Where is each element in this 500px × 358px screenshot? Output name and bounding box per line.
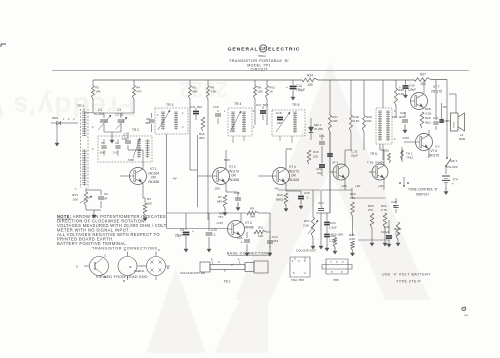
svg-text:R9: R9 [250,207,254,211]
svg-text:-9V: -9V [274,187,279,191]
svg-text:IE: IE [129,265,132,269]
svg-text:TR 6: TR 6 [370,152,377,156]
svg-text:·1: ·1 [236,196,239,200]
svg-text:TYPE 276-P: TYPE 276-P [396,280,421,284]
svg-text:7A52: 7A52 [406,156,413,160]
svg-text:6: 6 [341,270,343,274]
svg-text:22μF: 22μF [351,154,358,158]
svg-text:3: 3 [298,259,300,263]
svg-text:10K: 10K [332,119,337,123]
svg-text:R11: R11 [258,226,264,230]
svg-text:2N1175: 2N1175 [428,154,439,158]
svg-text:C11: C11 [190,105,196,109]
svg-text:18K: 18K [147,202,152,206]
svg-text:2N1636: 2N1636 [148,180,159,184]
svg-text:·032: ·032 [121,137,128,141]
svg-text:1: 1 [238,257,240,261]
svg-text:2: 2 [211,257,213,261]
svg-text:·0047: ·0047 [99,151,106,155]
svg-text:ELECTRIC: ELECTRIC [268,47,300,53]
svg-text:2N408: 2N408 [244,225,254,229]
svg-text:C24: C24 [330,221,336,225]
svg-text:TRANSISTOR PORTABLE ‘B’: TRANSISTOR PORTABLE ‘B’ [229,58,289,63]
svg-text:SWITCH: SWITCH [416,193,429,197]
svg-text:VT 4: VT 4 [289,165,296,169]
svg-text:39Ω: 39Ω [199,136,205,140]
svg-text:1: 1 [292,259,294,263]
svg-text:COLOUR DOT RD: COLOUR DOT RD [180,271,206,275]
svg-text:SHIELD: SHIELD [134,269,144,273]
svg-text:9V: 9V [443,105,447,109]
svg-text:680Ω: 680Ω [276,198,284,202]
svg-text:R25: R25 [384,149,390,153]
svg-text:S: S [76,264,78,268]
svg-text:2N1175: 2N1175 [431,89,442,93]
svg-text:13-12: 13-12 [115,113,123,117]
svg-text:C12: C12 [213,105,219,109]
svg-text:750μF: 750μF [296,88,305,92]
svg-text:56Ω: 56Ω [425,121,431,125]
svg-text:R7: R7 [218,195,222,199]
svg-text:6: 6 [394,138,396,141]
svg-text:680: 680 [217,200,222,204]
svg-text:502: 502 [263,103,268,107]
svg-text:VT 1: VT 1 [150,167,157,171]
svg-text:100: 100 [307,83,313,87]
svg-text:100: 100 [313,155,318,159]
svg-text:3: 3 [182,126,184,129]
svg-text:TR 3: TR 3 [166,103,173,107]
svg-text:100: 100 [420,82,426,86]
svg-text:2.7K: 2.7K [381,208,387,212]
svg-text:34K: 34K [250,215,255,219]
svg-text:R28: R28 [425,107,431,111]
svg-text:R3: R3 [147,197,151,201]
svg-text:VT 2: VT 2 [229,165,236,169]
svg-text:C10: C10 [211,228,217,232]
svg-text:VIEWED FROM LEAD END: VIEWED FROM LEAD END [96,275,148,279]
svg-text:7: 7 [330,260,332,264]
svg-text:R29: R29 [425,116,431,120]
svg-text:IN 295: IN 295 [314,127,323,131]
svg-text:270: 270 [368,208,373,212]
svg-text:1K: 1K [269,90,273,94]
svg-text:22K: 22K [366,119,371,123]
svg-text:+: + [192,230,194,234]
svg-text:(-9V): (-9V) [378,184,384,188]
svg-text:G: G [462,306,468,311]
svg-text:4: 4 [304,271,306,275]
svg-text:1958: 1958 [464,315,468,317]
svg-text:GE: GE [260,46,266,51]
svg-text:C9: C9 [180,228,184,232]
svg-text:(-9V): (-9V) [341,184,347,188]
svg-text:VOICE: VOICE [454,121,456,128]
svg-text:9 V: 9 V [435,145,440,149]
svg-text:8ΩΩ: 8ΩΩ [459,137,466,141]
svg-text:COLOUR DOT: COLOUR DOT [296,249,316,253]
svg-text:TR 5: TR 5 [292,103,299,107]
svg-text:USE ‘9’ VOLT BATTERY: USE ‘9’ VOLT BATTERY [382,273,431,277]
svg-text:8.9V: 8.9V [286,147,292,151]
svg-text:-0.5V: -0.5V [402,136,409,140]
svg-text:5 BP: 5 BP [128,158,134,162]
svg-text:TR 2: TR 2 [132,128,139,132]
svg-text:TR 1: TR 1 [77,104,84,108]
svg-text:5: 5 [331,270,333,274]
svg-text:B: B [123,279,125,283]
svg-text:502: 502 [197,105,202,109]
svg-text:100: 100 [258,234,263,238]
svg-text:4: 4 [231,263,233,267]
svg-text:56K: 56K [338,233,343,237]
svg-text:·1: ·1 [213,233,216,237]
svg-text:B: B [167,266,169,270]
svg-text:·1: ·1 [306,196,309,200]
svg-text:VT 8: VT 8 [431,149,438,153]
svg-text:R24A: R24A [394,227,402,231]
svg-text:2.5K: 2.5K [303,224,309,228]
svg-text:5: 5 [224,269,226,273]
svg-text:1.5μF: 1.5μF [329,226,337,230]
svg-text:18V: 18V [392,115,397,119]
svg-text:55V: 55V [219,212,224,216]
svg-text:1: 1 [224,110,226,113]
svg-text:1: 1 [75,187,77,191]
svg-text:R27: R27 [420,73,426,77]
svg-text:3: 3 [336,260,338,264]
svg-text:-0.5V: -0.5V [216,221,223,225]
svg-text:R13: R13 [277,193,283,197]
svg-text:4.2Ω: 4.2Ω [425,112,432,116]
svg-text:TR 4: TR 4 [234,102,241,106]
svg-text:R19: R19 [331,233,337,237]
svg-text:·1: ·1 [240,240,243,244]
svg-text:+: + [286,86,288,90]
svg-text:C: C [104,254,107,258]
svg-text:5: 5 [293,271,295,275]
svg-text:TR2–TR5: TR2–TR5 [291,278,304,282]
svg-text:2022: 2022 [179,77,228,102]
svg-text:T V6: T V6 [367,161,374,165]
svg-text:3-12: 3-12 [113,151,119,155]
svg-text:C4: C4 [115,141,119,145]
svg-text:2N1634: 2N1634 [288,178,299,182]
svg-text:RV1: RV1 [304,219,310,223]
svg-text:RV1: RV1 [72,193,78,197]
svg-text:2: 2 [92,125,94,129]
svg-text:100μF: 100μF [381,230,390,234]
svg-text:15K: 15K [257,90,262,94]
svg-text:R14: R14 [307,74,313,78]
svg-text:C3: C3 [117,108,121,112]
svg-text:BATTERY POSITIVE TERMINAL.: BATTERY POSITIVE TERMINAL. [57,241,127,246]
svg-text:2N408: 2N408 [375,161,384,165]
svg-text:10μ: 10μ [317,171,322,175]
svg-text:C5: C5 [101,141,105,145]
svg-text:C16: C16 [234,191,240,195]
svg-text:4.6K: 4.6K [349,237,355,241]
svg-text:76V: 76V [218,215,223,219]
svg-text:IC-200: IC-200 [94,112,104,116]
svg-text:2: 2 [304,259,306,263]
svg-text:-25V: -25V [214,187,220,191]
svg-text:5.6K: 5.6K [353,119,359,123]
svg-text:TONE CONTROL ‘D’: TONE CONTROL ‘D’ [408,188,438,192]
svg-text:C17: C17 [256,103,262,107]
svg-text:C18: C18 [276,111,282,115]
svg-text:4: 4 [182,112,184,115]
svg-text:150μF: 150μF [408,88,417,92]
svg-text:C20: C20 [304,191,310,195]
svg-text:SW 1: SW 1 [450,159,458,163]
svg-text:5.6V: 5.6V [224,158,230,162]
svg-text:GENERAL: GENERAL [228,47,259,53]
svg-text:+9V: +9V [355,184,360,188]
svg-text:C: C [158,248,161,252]
svg-text:VT 7: VT 7 [433,85,440,89]
svg-text:-4V: -4V [172,177,177,181]
svg-text:2N1636: 2N1636 [228,178,239,182]
svg-text:25μF: 25μF [175,234,182,238]
svg-text:VT 3: VT 3 [245,221,252,225]
svg-text:+: + [399,86,401,90]
svg-text:470: 470 [136,90,141,94]
svg-text:9 V: 9 V [453,178,459,182]
svg-text:2: 2 [157,114,159,117]
svg-text:3: 3 [218,260,220,264]
svg-text:BASE CONNECTIONS: BASE CONNECTIONS [227,251,271,255]
svg-text:TB 1: TB 1 [224,280,231,284]
svg-text:3: 3 [92,147,94,151]
svg-text:VT 5: VT 5 [332,161,339,165]
svg-text:10K: 10K [73,198,78,202]
svg-text:R15: R15 [313,150,319,154]
svg-text:3.9K: 3.9K [210,90,216,94]
svg-text:3: 3 [253,126,255,129]
svg-text:14K: 14K [95,90,100,94]
svg-text:2: 2 [342,260,344,264]
svg-text:ON-OFF: ON-OFF [447,165,459,169]
svg-text:TR6: TR6 [333,278,339,282]
svg-text:MR1: MR1 [52,116,59,120]
svg-text:68K: 68K [192,90,197,94]
svg-text:+: + [452,182,454,186]
svg-text:C6: C6 [104,192,108,196]
